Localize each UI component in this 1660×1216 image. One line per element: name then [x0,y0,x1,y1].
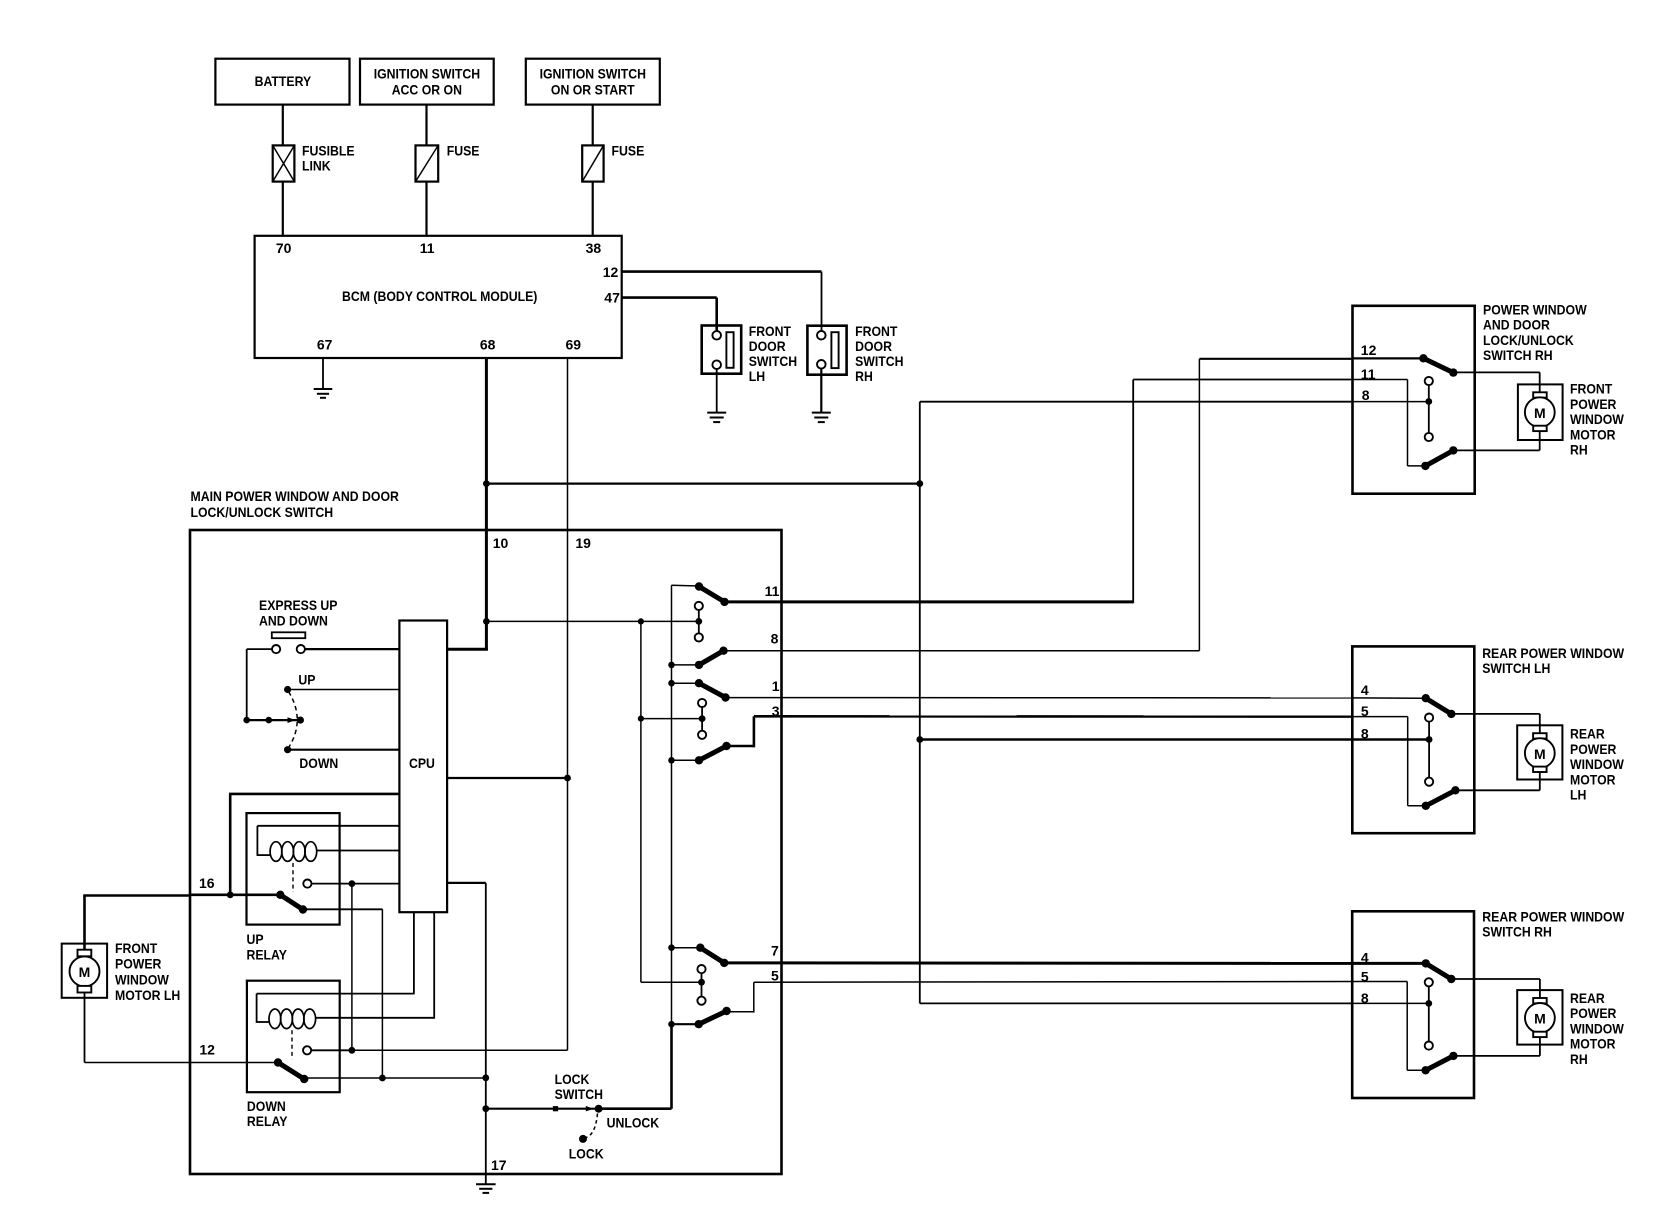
svg-text:WINDOW: WINDOW [1570,756,1625,772]
wire pin10 node to switch group 1 center [486,620,698,622]
junction node BCM68 branch [483,480,490,487]
rear power window motor RH [1517,990,1562,1045]
svg-text:4: 4 [1361,682,1369,698]
DOWN relay NC contact circle [303,1046,311,1054]
junction node blades common [379,1075,386,1082]
svg-text:M: M [79,964,91,980]
svg-text:17: 17 [491,1157,507,1173]
label POWER WINDOW AND DOOR LOCK/UNLOCK SWITCH RH [1483,302,1587,364]
label EXPRESS UP AND DOWN [259,597,338,629]
wire 16 branch up and to CPU [229,794,399,895]
svg-text:FRONT: FRONT [855,323,898,339]
DOWN relay dashed actuator link [291,1030,293,1059]
svg-text:67: 67 [317,337,333,353]
wire rear LH upper blade to motor top [1451,714,1540,733]
junction node pivot 3 [668,757,675,764]
svg-text:47: 47 [604,290,620,306]
svg-text:SWITCH: SWITCH [555,1086,603,1102]
svg-text:FRONT: FRONT [1570,381,1613,397]
svg-text:POWER: POWER [1570,396,1616,412]
switch RH lower blade [1421,446,1457,470]
rear RH center contacts [1425,978,1433,1049]
svg-text:8: 8 [771,631,779,647]
svg-text:LOCK/UNLOCK SWITCH: LOCK/UNLOCK SWITCH [191,504,334,520]
front power window motor LH box [62,944,107,998]
label FRONT POWER WINDOW MOTOR LH [115,940,180,1003]
wire rear RH pin 5 to lower blade pivot [1352,982,1425,1071]
ground front door switch RH [812,413,831,423]
wire BCM pin 47 to front door switch LH [622,298,717,332]
fusible link [273,145,295,181]
group 3 pivot wire pin 7 [672,947,701,949]
svg-text:MOTOR: MOTOR [1570,1036,1616,1052]
svg-text:10: 10 [493,535,509,551]
svg-text:REAR POWER WINDOW: REAR POWER WINDOW [1482,909,1625,925]
svg-text:FUSIBLE: FUSIBLE [302,142,355,158]
svg-text:M: M [1534,1011,1546,1027]
wire main pin 7 to rear switch RH pin 4 [724,961,1352,965]
wire BCM pin 67 to ground [322,358,324,389]
wire fuse 2 to BCM pin 38 [592,182,594,237]
svg-text:POWER: POWER [115,956,161,972]
svg-text:REAR POWER WINDOW: REAR POWER WINDOW [1482,645,1625,661]
UP contact dot [284,686,291,693]
lock switch wire right to pivot trunk [599,1024,672,1109]
wire switch RH pin 11 to lower blade pivot [1353,380,1426,466]
svg-text:WINDOW: WINDOW [1570,1020,1625,1036]
wire DOWN contact to CPU [288,749,400,751]
group 1 blade pin 8 [695,647,728,670]
label FRONT DOOR SWITCH RH [855,323,903,384]
svg-text:RH: RH [855,368,873,384]
label FUSIBLE LINK [302,142,355,173]
main power window and door lock/unlock switch box [190,530,782,1174]
wire front door switch RH to ground [820,369,822,413]
wire BCM pin 69 to main switch pin 19 [567,358,569,530]
svg-text:RELAY: RELAY [247,946,288,962]
svg-text:REAR: REAR [1570,726,1605,742]
label MAIN POWER WINDOW AND DOOR LOCK/UNLOCK SWITCH [191,488,399,520]
svg-text:LOCK: LOCK [569,1145,604,1161]
wire UP contact to CPU [288,689,400,691]
label FRONT POWER WINDOW MOTOR RH [1570,381,1625,458]
junction node NC link top [349,880,356,887]
wire pin19 vertical to relay NC contacts [352,1049,568,1051]
wire rear LH pin 8 interior [1352,738,1429,741]
svg-text:M: M [1534,405,1546,421]
group 3 center contacts [697,965,705,1005]
label DOWN RELAY [247,1098,288,1129]
svg-text:RH: RH [1570,1051,1588,1067]
svg-text:SWITCH: SWITCH [749,353,797,369]
express switch contact circles [272,645,305,653]
label REAR POWER WINDOW SWITCH RH [1482,909,1625,940]
svg-text:LH: LH [749,368,765,384]
svg-text:69: 69 [566,337,582,353]
wire DOWN relay blade out [304,1077,486,1079]
svg-text:ON OR START: ON OR START [551,82,635,98]
label UP RELAY [247,931,288,962]
svg-text:REAR: REAR [1570,990,1605,1006]
svg-text:12: 12 [1361,342,1377,358]
lock switch arm arrow [586,1106,594,1111]
ignition switch ACC OR ON box [360,59,494,105]
BCM (Body Control Module) box [255,236,622,358]
wire BCM68 node to right trunk [486,483,919,485]
svg-text:MOTOR LH: MOTOR LH [115,987,180,1003]
junction node x641 group 2 branch [638,716,644,722]
svg-text:BCM (BODY CONTROL MODULE): BCM (BODY CONTROL MODULE) [342,288,537,304]
ground pin 17 [476,1184,496,1193]
wire BCM pin 68 to main switch pin 10 [485,358,488,650]
power window and door lock/unlock switch RH box [1353,306,1475,494]
wire battery to fusible link [282,105,284,146]
svg-text:UP: UP [298,671,315,687]
svg-text:16: 16 [199,875,215,891]
svg-text:POWER WINDOW: POWER WINDOW [1483,302,1587,318]
wire pin 5 jog [727,982,754,1012]
junction node pivot 7 [668,944,675,951]
svg-text:FUSE: FUSE [612,142,645,158]
svg-text:MOTOR: MOTOR [1570,426,1616,442]
rear LH upper blade [1422,694,1456,718]
wire pin 3 jog [727,716,754,747]
label REAR POWER WINDOW MOTOR RH [1570,990,1625,1067]
svg-text:70: 70 [276,240,292,256]
svg-text:POWER: POWER [1570,1005,1616,1021]
rocker pivot dot [297,717,304,724]
UP relay box [247,813,340,925]
fuse F1 [416,145,439,181]
lock switch dashed arc [586,1114,598,1138]
wire ignition ON to fuse 2 [592,105,594,146]
junction node lock switch feed [482,1105,489,1112]
svg-text:WINDOW: WINDOW [1570,411,1625,427]
svg-text:RELAY: RELAY [247,1113,288,1129]
wire rear LH pin 4 interior [1352,697,1426,699]
rear LH lower blade [1422,786,1460,810]
wire switch RH pin 8 interior [1353,401,1429,403]
rocker dashed arc [289,692,298,748]
DOWN relay blade [274,1058,309,1083]
wire rear RH pin 8 interior [1352,1002,1429,1004]
wire switch RH lower blade to motor RH bottom [1453,431,1539,450]
junction node trunk to rear LH pin 8 [916,736,923,743]
wire 12 from motor LH to DOWN relay blade pivot [190,1062,278,1064]
junction node blade wire to trunk [482,1074,489,1081]
DOWN contact dot [284,746,291,753]
UP relay blade [276,891,307,914]
svg-text:BATTERY: BATTERY [255,73,312,89]
front door switch RH [807,326,846,375]
svg-text:11: 11 [420,240,435,256]
svg-text:LINK: LINK [302,158,331,174]
svg-text:IGNITION SWITCH: IGNITION SWITCH [374,65,480,81]
svg-text:DOWN: DOWN [247,1098,286,1114]
junction node trunk top [916,480,923,487]
wire main pin 11 to front switch RH pin 11 [725,380,1353,604]
switch RH upper blade [1419,354,1457,377]
svg-text:DOOR: DOOR [855,338,892,354]
group 2 pivot wire pin 1 [672,682,700,684]
svg-text:38: 38 [586,240,602,256]
wire DOWN relay NC contact to link [311,1049,352,1051]
wire UP relay NC contact to CPU [312,883,400,885]
svg-text:12: 12 [603,264,619,280]
svg-text:AND DOWN: AND DOWN [259,613,328,629]
fuse F2 [582,145,603,181]
label REAR POWER WINDOW SWITCH LH [1482,645,1625,676]
CPU box [399,621,447,913]
wire DOWN relay coil left to CPU bottom [257,912,414,1023]
UP relay coil [270,842,317,862]
rear RH upper blade [1422,959,1456,983]
junction node pivot 8 [668,662,675,669]
svg-text:1: 1 [772,678,780,694]
svg-text:ACC OR ON: ACC OR ON [392,82,462,98]
svg-text:5: 5 [771,967,779,983]
wire ignition ACC to fuse 1 [425,105,427,146]
svg-text:UP: UP [247,931,264,947]
wire 16 from motor LH to UP relay blade pivot [190,893,280,896]
wire DOWN relay coil right to CPU bottom [316,912,435,1018]
svg-text:SWITCH: SWITCH [855,353,903,369]
svg-text:LOCK: LOCK [555,1071,590,1087]
svg-text:LH: LH [1570,787,1586,803]
svg-text:M: M [1534,746,1546,762]
svg-text:SWITCH RH: SWITCH RH [1482,924,1552,940]
junction node pivot 5 [668,1021,675,1028]
express switch button bar [272,632,306,638]
wire switch RH upper blade to motor RH top [1453,372,1539,392]
junction node NC link bottom [349,1047,356,1054]
group 1 pivot wire pin 11 [672,584,700,587]
svg-text:FRONT: FRONT [115,940,158,956]
UP relay NC contact circle [303,880,311,888]
group 1 pivot wire pin 8 [672,664,700,666]
svg-text:8: 8 [1362,387,1370,403]
svg-text:FUSE: FUSE [447,142,480,158]
wire rear LH pin 5 to lower blade pivot [1352,717,1426,806]
lock switch wire left [486,1108,599,1110]
group 2 blade pin 1 [695,679,730,702]
wire trunk to rear switch LH pin 8 [920,738,1353,741]
wire UP relay coil right to CPU [317,850,400,852]
svg-text:IGNITION SWITCH: IGNITION SWITCH [540,65,646,81]
label LOCK SWITCH [555,1071,603,1102]
svg-text:AND DOOR: AND DOOR [1483,317,1550,333]
junction node pin10 switch-feed [483,618,490,625]
wire express switch to CPU [305,648,399,650]
group 1 center contacts [695,602,703,642]
wire trunk to rear switch RH pin 8 [920,1002,1352,1004]
svg-text:DOOR: DOOR [749,338,786,354]
wire CPU right to pin 17 trunk [447,883,486,1184]
rear power window switch LH box [1352,646,1474,833]
junction node wire16 [227,891,234,898]
wire CPU to pin19 vertical [447,777,567,779]
vertical wire x641 down to group 3 center [640,621,642,982]
switch RH center contacts [1425,377,1433,441]
svg-text:19: 19 [575,535,591,551]
wire rear RH pin 4 interior [1352,962,1426,965]
group 2 center contacts [698,699,706,739]
vertical wire NC link [351,884,353,1051]
svg-text:MOTOR: MOTOR [1570,771,1616,787]
svg-text:SWITCH LH: SWITCH LH [1482,660,1550,676]
wire rear LH lower blade to motor bottom [1455,772,1539,790]
group 2 pivot wire pin 3 [672,759,700,761]
front power window motor RH [1518,384,1563,440]
junction node CPU right pin19 [564,775,571,782]
group 3 blade pin 7 [696,944,728,968]
DOWN relay coil [269,1009,316,1029]
rear power window motor LH [1517,725,1562,779]
wire express switch left leg [247,649,301,720]
wire front door switch LH to ground [716,369,718,413]
lock switch pivot dot UNLOCK [595,1105,603,1113]
wire x641 to group 3 center [641,981,701,983]
svg-text:MAIN POWER WINDOW AND DOOR: MAIN POWER WINDOW AND DOOR [191,488,399,504]
DOWN relay box [247,981,340,1092]
trunk wire to pin 8 contacts of right switches [920,402,1353,1004]
junction node pivot 1 [668,680,675,687]
switch pivots common vertical [671,585,673,1024]
wire x641 to group 2 center [641,718,702,720]
junction node at x641 [638,618,644,624]
ground front door switch LH [707,413,726,423]
svg-text:UNLOCK: UNLOCK [607,1114,660,1130]
junction node rocker common [243,717,250,724]
svg-text:7: 7 [771,943,779,959]
svg-text:EXPRESS UP: EXPRESS UP [259,597,338,613]
svg-text:FRONT: FRONT [749,323,792,339]
junction node rocker common 2 [266,717,273,724]
svg-text:12: 12 [199,1042,215,1058]
wire main pin 5 to rear switch RH pin 5 [754,981,1352,984]
rear LH center contacts [1425,714,1433,786]
wire UP relay coil left to CPU [257,826,399,856]
battery box [215,59,349,105]
rear power window switch RH box [1352,911,1474,1098]
svg-text:RH: RH [1570,442,1588,458]
front door switch LH [702,326,742,374]
svg-text:DOWN: DOWN [299,755,338,771]
svg-text:WINDOW: WINDOW [115,971,170,987]
svg-text:LOCK/UNLOCK: LOCK/UNLOCK [1483,332,1574,348]
wire fuse 1 to BCM pin 11 [425,182,427,237]
svg-text:11: 11 [765,583,780,599]
wire fusible link to BCM pin 70 [282,182,284,237]
wire motor LH bottom to main box pin 12 [85,993,191,1063]
svg-text:CPU: CPU [409,755,435,771]
wire pin 19 inside main box [567,530,569,1050]
wire pin10 elbow into CPU [447,648,488,651]
wire BCM pin 12 to front door switch RH [622,272,822,332]
wire main pin 8 to front switch RH pin 12 [724,358,1424,650]
rear RH lower blade [1421,1052,1457,1075]
wire UP relay blade out [303,909,383,1078]
label FRONT DOOR SWITCH LH [749,323,797,384]
wire main pin 3 to rear switch LH pin 5 [754,715,1352,718]
rocker arm arrow [288,717,296,723]
wire motor LH top to main box pin 16 [83,895,190,950]
group 1 blade pin 11 [695,582,729,606]
wire main pin 1 to rear switch LH pin 4 [726,697,1353,699]
wire rear RH lower blade to motor bottom [1453,1037,1540,1056]
label REAR POWER WINDOW MOTOR LH [1570,726,1625,803]
svg-text:POWER: POWER [1570,741,1616,757]
group 2 blade pin 3 [695,742,731,765]
ignition switch ON OR START box [526,59,660,105]
wire rear RH upper blade to motor top [1451,979,1540,998]
svg-text:68: 68 [480,337,496,353]
lock switch fixed contact square [553,1106,558,1111]
group 3 pivot wire pin 5 [672,1023,699,1025]
svg-text:SWITCH RH: SWITCH RH [1483,347,1553,363]
UP relay dashed actuator link [292,863,294,892]
group 3 blade pin 5 [695,1007,731,1029]
ground BCM pin 67 [314,389,333,398]
lock switch LOCK contact dot [579,1135,587,1143]
